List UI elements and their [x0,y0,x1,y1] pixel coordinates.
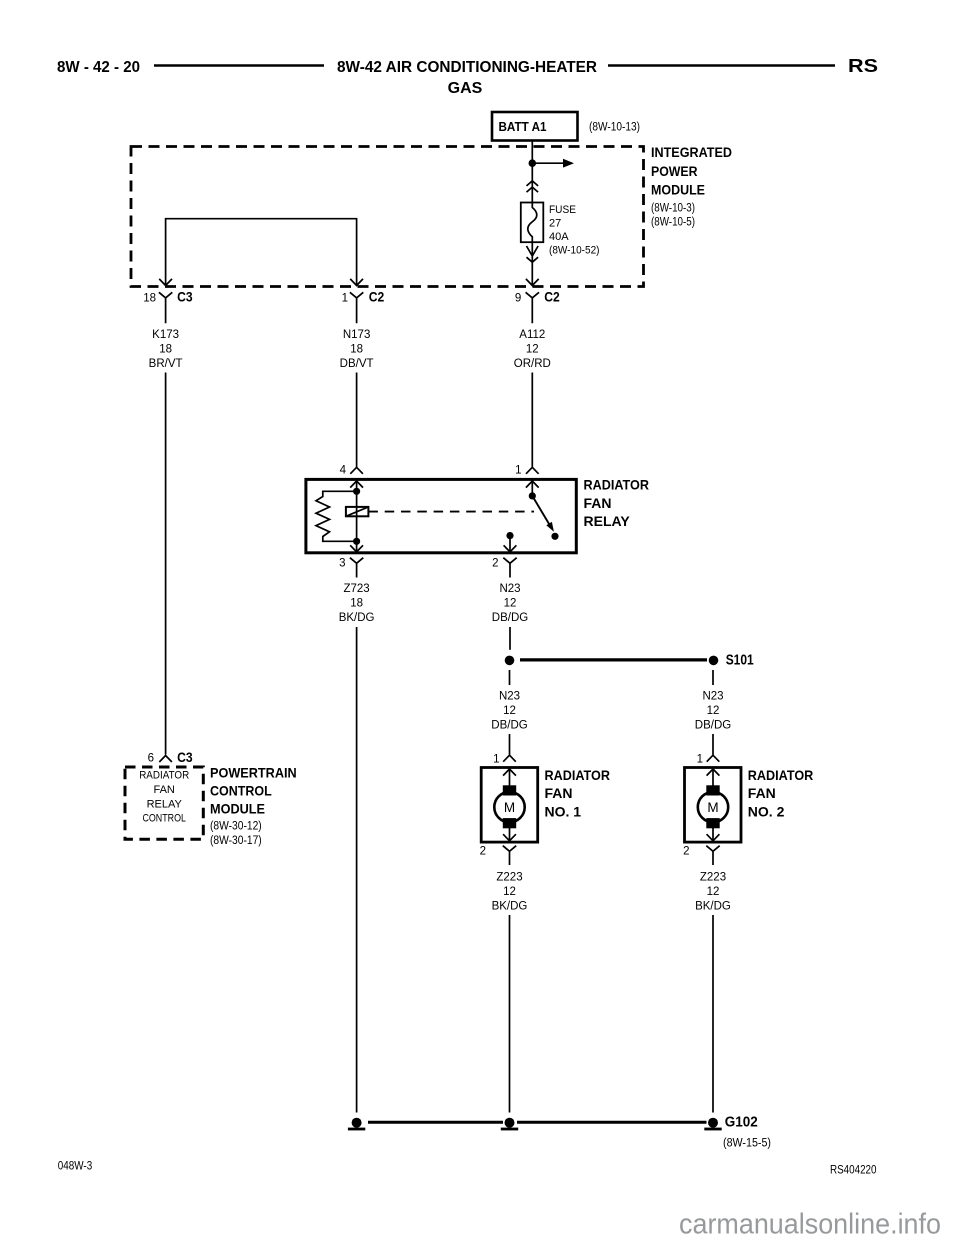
svg-text:BATT A1: BATT A1 [499,119,547,134]
ground G102 [704,1115,771,1150]
motor fan 1 box [481,768,538,843]
wire A112 run [531,373,533,467]
svg-text:RADIATOR: RADIATOR [584,477,650,493]
svg-text:DB/DG: DB/DG [492,612,528,624]
svg-text:DB/DG: DB/DG [695,719,731,731]
svg-text:DB/DG: DB/DG [491,719,527,731]
svg-text:8W-42 AIR CONDITIONING-HEATER: 8W-42 AIR CONDITIONING-HEATER [337,59,597,76]
svg-text:MODULE: MODULE [651,183,705,198]
arrow into connector C3-18 [159,279,172,286]
svg-text:FAN: FAN [545,785,573,801]
header RS [848,56,878,76]
svg-text:1: 1 [515,465,521,477]
wire N23 12 DB/DG label [492,583,528,624]
svg-text:RELAY: RELAY [584,513,631,529]
relay pin 2 connector [492,557,517,577]
fuse label [549,204,600,257]
fan pin 1 connector [697,753,720,765]
motor fan 2 brush top [707,786,719,795]
svg-text:A112: A112 [519,329,545,341]
svg-text:GAS: GAS [448,80,483,97]
motor fan 1 pin2 internal arrow [503,828,516,841]
relay pin 3 internal arrow [350,545,363,552]
wire fuse to connector C2-9 [531,242,533,285]
wire K173 run [165,373,167,755]
node relay NO contact [551,533,558,540]
svg-text:18: 18 [350,343,363,355]
svg-text:12: 12 [707,886,720,898]
relay switch arm [532,496,554,532]
wire Z223 12 BK/DG label [695,872,731,913]
motor fan 1 brush top [503,786,515,795]
wire A112 12 OR/RD label [514,329,551,370]
motor fan 2 pin1 internal arrow [707,769,720,786]
svg-text:Z223: Z223 [700,872,726,884]
connector C3 pin 18 [143,289,193,324]
footer sheet number [58,1161,92,1173]
wire ground bus left [368,1121,503,1124]
wire N173 run [356,373,358,467]
svg-text:RS404220: RS404220 [830,1165,877,1177]
svg-text:12: 12 [504,597,517,609]
relay coil resistor [316,491,357,541]
relay pin 1 connector [515,465,539,477]
svg-text:C2: C2 [544,289,560,305]
relay pin 2 internal arrow [504,545,517,552]
relay radiator fan relay box [306,479,576,552]
wire N23 branch right [712,670,714,685]
svg-text:BK/DG: BK/DG [492,901,528,913]
svg-text:12: 12 [503,886,516,898]
wire battery feed [531,141,533,203]
svg-text:12: 12 [526,343,539,355]
svg-text:18: 18 [350,597,363,609]
arrow into connector C2-9 [526,279,539,286]
svg-text:40A: 40A [549,231,569,243]
PCM internal function label [139,770,189,825]
battery feed BATT A1 [492,112,578,141]
wire Z223 run to ground [509,915,511,1113]
svg-text:(8W-10-5): (8W-10-5) [651,217,695,229]
svg-text:C2: C2 [369,289,385,305]
svg-text:DB/VT: DB/VT [340,358,374,370]
svg-text:RADIATOR: RADIATOR [139,770,189,782]
motor fan 2 label [748,767,814,820]
arrow into connector C2-1 [350,279,363,286]
fan pin 1 connector [493,753,516,765]
svg-text:RELAY: RELAY [147,798,183,810]
svg-text:1: 1 [493,753,499,765]
connector chevrons below fuse [527,246,539,262]
wire to fan2 pin1 [712,734,714,755]
motor fan 1 M [494,792,524,822]
node relay pin 2 contact [506,532,513,539]
svg-text:3: 3 [339,557,345,569]
svg-text:FAN: FAN [748,785,776,801]
wire Z223 run to ground [712,915,714,1113]
svg-text:FAN: FAN [584,495,612,511]
svg-text:(8W-30-12): (8W-30-12) [210,821,262,833]
svg-text:S101: S101 [726,653,754,669]
node relay coil top [353,488,360,495]
svg-text:BR/VT: BR/VT [149,358,183,370]
powertrain control module dashed box [125,767,203,839]
svg-text:RS: RS [848,56,878,76]
relay pin 1 internal arrow [526,481,539,496]
motor fan 2 pin2 internal arrow [707,828,720,841]
svg-text:C3: C3 [177,749,193,765]
svg-text:(8W-10-13): (8W-10-13) [589,122,640,134]
motor fan 1 brush bottom [503,819,515,828]
svg-text:BK/DG: BK/DG [339,612,375,624]
relay armature [346,507,369,516]
svg-text:2: 2 [492,557,498,569]
svg-text:18: 18 [159,343,172,355]
wire Z723 18 BK/DG label [339,583,375,624]
wire Z223 12 BK/DG label [492,872,528,913]
svg-text:G102: G102 [725,1115,758,1131]
svg-text:POWER: POWER [651,164,698,179]
svg-text:POWERTRAIN: POWERTRAIN [210,764,297,780]
svg-text:(8W-10-3): (8W-10-3) [651,203,695,215]
motor fan 1 pin 2 connector [480,846,517,865]
svg-text:27: 27 [549,218,561,230]
svg-text:M: M [504,800,515,815]
svg-text:N23: N23 [499,690,520,702]
powertrain control module label [210,764,297,847]
ground symbol Z723 [348,1118,365,1131]
wire to fan1 pin1 [509,734,511,755]
connector C2 pin 9 [515,289,560,324]
reference (8W-10-13) [589,122,640,134]
svg-text:C3: C3 [177,289,193,305]
svg-text:FAN: FAN [153,784,174,796]
wire N23 branch left [509,670,511,685]
header rule right [608,64,835,66]
svg-text:(8W-10-52): (8W-10-52) [549,245,600,257]
relay label [584,477,650,530]
svg-text:4: 4 [340,465,347,477]
svg-text:FUSE: FUSE [549,204,576,216]
node splice left [505,656,515,666]
wire splice bus [520,658,707,661]
connector C2 pin 1 [342,289,385,324]
svg-text:18: 18 [143,292,156,304]
relay pin 4 internal arrow [350,481,363,491]
svg-text:BK/DG: BK/DG [695,901,731,913]
svg-text:OR/RD: OR/RD [514,358,551,370]
svg-text:N173: N173 [343,329,371,341]
footer drawing number [830,1165,877,1177]
svg-text:CONTROL: CONTROL [142,813,186,825]
watermark [679,1209,941,1241]
motor fan 1 label [545,767,611,820]
wire K173 18 BR/VT label [149,329,183,370]
svg-text:RADIATOR: RADIATOR [748,767,814,783]
integrated power module dashed box [131,147,644,287]
relay actuating dashed link [368,511,534,513]
svg-text:12: 12 [707,705,720,717]
svg-text:NO. 1: NO. 1 [545,804,582,820]
wire N23 12 DB/DG label right [695,690,731,731]
svg-text:N23: N23 [499,583,520,595]
node splice S101 [709,653,754,669]
svg-text:12: 12 [503,705,516,717]
ground symbol fan 1 [501,1118,518,1131]
svg-text:MODULE: MODULE [210,800,265,816]
motor fan 1 pin1 internal arrow [503,769,516,786]
motor fan 2 box [685,768,742,843]
svg-text:INTEGRATED: INTEGRATED [651,145,732,160]
wire Z723 run to ground [356,627,358,1113]
node battery junction [529,159,537,167]
node relay coil bottom [353,538,360,545]
svg-text:9: 9 [515,292,521,304]
motor fan 2 pin 2 connector [683,846,720,865]
wire relay coil to pin 3 [356,491,358,552]
node relay common contact [529,492,536,499]
svg-text:(8W-15-5): (8W-15-5) [723,1138,771,1150]
svg-text:2: 2 [480,846,486,858]
svg-text:048W-3: 048W-3 [58,1161,92,1173]
wire N173 18 DB/VT label [340,329,374,370]
svg-text:(8W-30-17): (8W-30-17) [210,835,262,847]
svg-text:RADIATOR: RADIATOR [545,767,611,783]
svg-text:M: M [707,800,718,815]
header rule left [154,64,324,66]
svg-text:Z223: Z223 [496,872,522,884]
arrow feed to other circuits [536,159,574,168]
motor fan 2 brush bottom [707,819,719,828]
svg-text:N23: N23 [702,690,723,702]
connector chevrons above fuse [527,181,539,192]
svg-text:6: 6 [148,753,154,765]
svg-text:carmanualsonline.info: carmanualsonline.info [679,1209,941,1241]
svg-text:K173: K173 [152,329,179,341]
svg-text:CONTROL: CONTROL [210,782,272,798]
relay pin 3 connector [339,557,363,577]
svg-text:1: 1 [697,753,703,765]
header page number [57,59,140,76]
wire relay pin 2 [509,536,511,552]
wire N23 12 DB/DG label left [491,690,527,731]
wire N23 run to splice [509,627,511,650]
wire IPM internal C3-18 to C2-1 [166,219,357,286]
header title [337,59,597,97]
motor fan 2 M [698,792,728,822]
svg-text:NO. 2: NO. 2 [748,804,785,820]
svg-text:Z723: Z723 [343,583,369,595]
PCM pin 6 connector [148,749,193,765]
svg-text:1: 1 [342,292,348,304]
integrated power module label [651,145,732,229]
svg-text:2: 2 [683,846,689,858]
fuse 27 40A [521,203,544,243]
svg-text:8W - 42 - 20: 8W - 42 - 20 [57,59,140,76]
wire ground bus right [517,1121,707,1124]
relay pin 4 connector [340,465,363,477]
